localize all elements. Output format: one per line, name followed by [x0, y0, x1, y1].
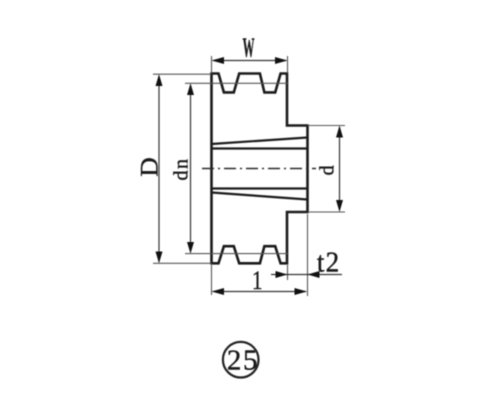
- t2 extension line below body right edge: [287, 265, 289, 280]
- l extension line right: [307, 214, 309, 296]
- W extension line left: [211, 56, 213, 73]
- W extension line right: [287, 56, 289, 73]
- W arrow left: [212, 57, 225, 64]
- D extension line top: [153, 73, 212, 75]
- W dimension line: [213, 60, 286, 62]
- D arrow bottom: [156, 252, 163, 264]
- D arrow top: [156, 74, 163, 86]
- bore upper line: [212, 147, 308, 149]
- D extension line bottom: [153, 262, 212, 264]
- svg-text:D: D: [135, 157, 163, 176]
- l arrow right: [295, 288, 308, 295]
- l extension line left: [211, 265, 213, 295]
- center line dash-dot: [202, 168, 316, 170]
- pulley body outline with two V-grooves top and bottom, hub step on right: [212, 74, 308, 264]
- svg-text:1: 1: [252, 267, 263, 295]
- svg-text:W: W: [243, 32, 255, 63]
- t2 arrow pointing left at hub edge: [308, 271, 320, 278]
- bore lower line: [212, 187, 308, 189]
- d arrow top: [336, 126, 343, 138]
- dn extension line bottom: [185, 253, 288, 255]
- t2 dimension line with outside arrows: [271, 274, 342, 276]
- dn dimension line: [190, 85, 192, 252]
- svg-text:25: 25: [227, 345, 259, 377]
- svg-text:t2: t2: [317, 246, 340, 277]
- d dimension line: [339, 127, 341, 210]
- dn arrow bottom: [187, 242, 194, 254]
- d extension line top: [308, 125, 346, 127]
- W arrow right: [275, 57, 288, 64]
- d arrow bottom: [336, 200, 343, 212]
- D dimension line: [158, 76, 160, 262]
- l dimension line: [213, 291, 306, 293]
- svg-text:dn: dn: [170, 158, 192, 181]
- l arrow left: [212, 288, 225, 295]
- d extension line bottom: [308, 211, 346, 213]
- svg-text:d: d: [317, 165, 339, 175]
- part number circle: [223, 342, 259, 378]
- taper bore upper line: [212, 138, 308, 145]
- dn arrow top: [187, 83, 194, 95]
- dn extension line top: [185, 82, 288, 84]
- taper bore lower line: [212, 193, 308, 200]
- t2 arrow pointing right at body edge: [276, 271, 288, 278]
